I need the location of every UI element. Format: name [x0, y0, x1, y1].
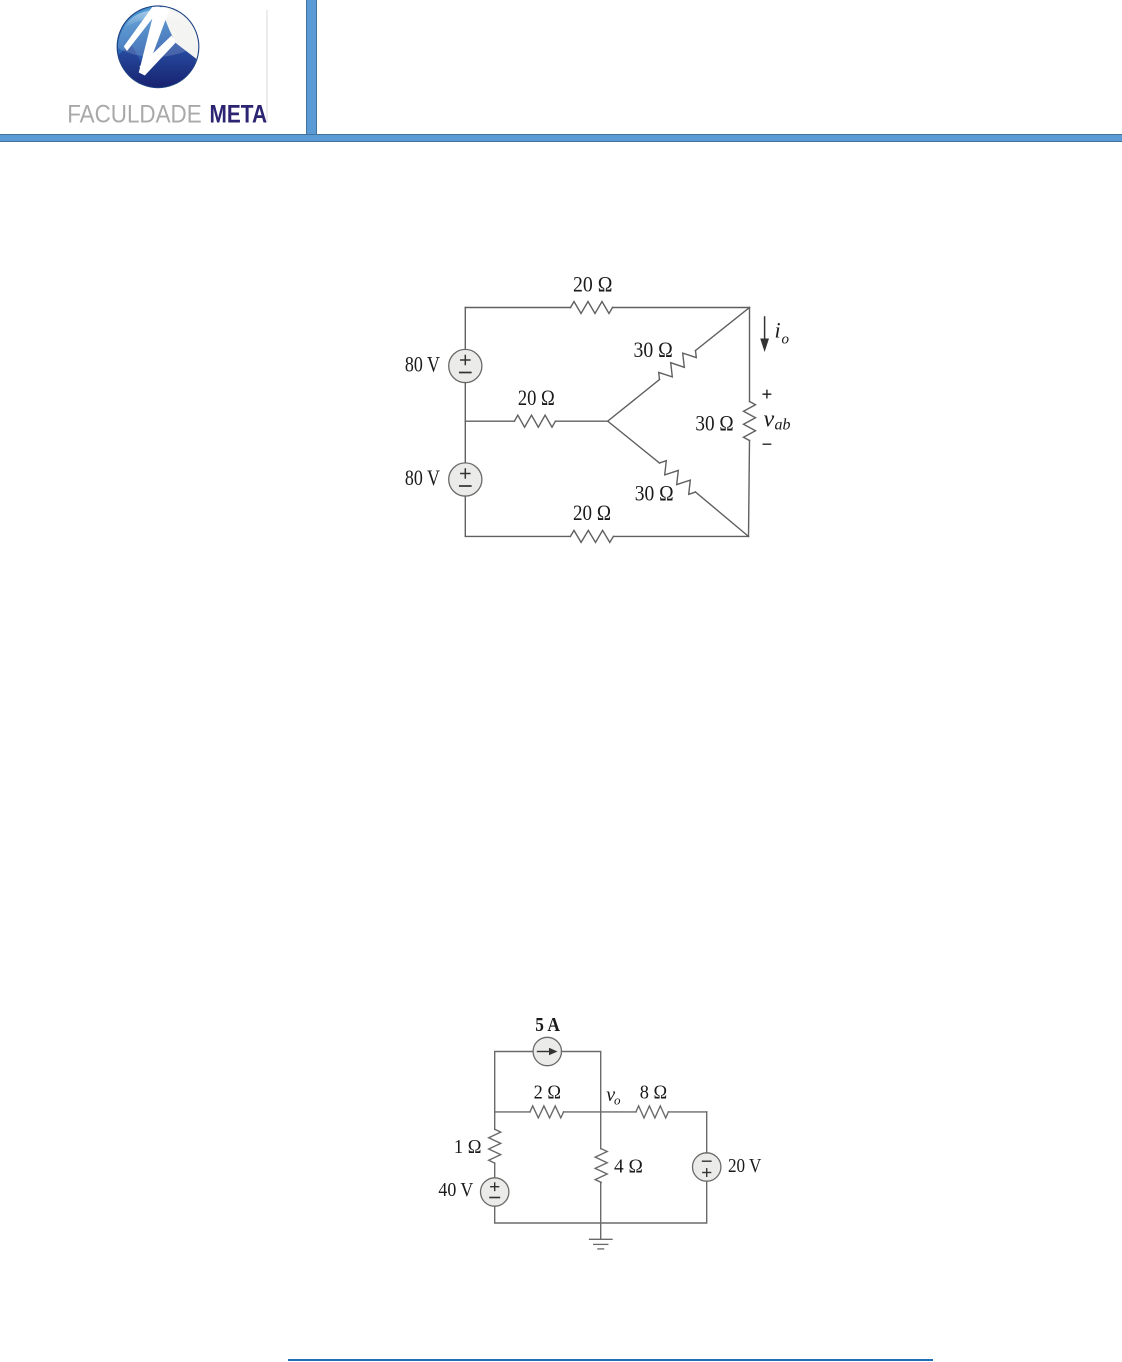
- white M stroke 3: [140, 36, 177, 76]
- resistor R bottom 20ohm: [570, 530, 613, 542]
- wire left vertical upper: [494, 1112, 496, 1129]
- wire diagonal lower upper part: [608, 421, 660, 463]
- resistor R 1ohm: [489, 1129, 501, 1163]
- svg-text:−: −: [762, 435, 773, 456]
- resistor R 2ohm: [530, 1106, 564, 1118]
- svg-text:v: v: [764, 406, 775, 432]
- wire mid left node to resistor: [495, 1111, 530, 1113]
- svg-text:80 V: 80 V: [405, 465, 440, 490]
- svg-text:FACULDADE: FACULDADE: [67, 101, 202, 129]
- white right region: [161, 3, 201, 63]
- svg-text:30 Ω: 30 Ω: [695, 410, 733, 435]
- navy bottom dome: [118, 41, 196, 88]
- ground stem: [600, 1223, 602, 1239]
- svg-text:80 V: 80 V: [405, 351, 440, 376]
- wire mid center segment: [564, 1111, 636, 1113]
- current source I1 5A: [533, 1037, 561, 1065]
- svg-text:ab: ab: [775, 417, 791, 434]
- wire bottom left segment: [465, 535, 570, 537]
- horizontal blue bar: [0, 134, 1122, 142]
- wire diagonal upper lower part: [608, 380, 660, 422]
- wire top loop right: [562, 1052, 601, 1112]
- wire mid right segment: [668, 1111, 706, 1113]
- wire mid vertical upper: [600, 1112, 602, 1149]
- wire right vertical upper: [706, 1112, 708, 1153]
- logo Faculdade Meta: [60, 0, 280, 130]
- resistor R top 20ohm: [571, 302, 613, 314]
- wire top left segment: [465, 307, 570, 309]
- svg-text:30 Ω: 30 Ω: [634, 337, 673, 362]
- white M stroke 2 valley: [139, 6, 170, 76]
- svg-text:+: +: [762, 385, 773, 406]
- voltage source V1 80V: [449, 349, 482, 382]
- svg-text:5 A: 5 A: [535, 1014, 560, 1036]
- svg-text:o: o: [782, 332, 790, 348]
- glass arc: [118, 9, 198, 57]
- wire mid vertical lower: [600, 1182, 602, 1223]
- resistor R right 30ohm vab: [744, 402, 756, 441]
- svg-text:o: o: [614, 1093, 621, 1108]
- circuit 2: [420, 1000, 780, 1260]
- wire top right segment: [613, 307, 750, 309]
- wire diagonal upper upper part: [696, 308, 750, 351]
- svg-text:20 Ω: 20 Ω: [518, 385, 555, 410]
- svg-text:40 V: 40 V: [438, 1179, 473, 1201]
- wire middle right segment: [555, 420, 607, 422]
- resistor R 8ohm: [636, 1106, 669, 1118]
- wire left vertical mid: [464, 383, 466, 463]
- resistor R mid 20ohm: [514, 415, 555, 427]
- wire bottom right segment: [613, 535, 748, 537]
- voltage source V 40V: [481, 1178, 509, 1206]
- ground symbol: [590, 1238, 613, 1240]
- svg-text:8 Ω: 8 Ω: [640, 1081, 667, 1103]
- wire diagonal lower lower part: [696, 492, 749, 536]
- white M stroke 1: [124, 6, 160, 51]
- wire right vertical upper: [749, 308, 751, 402]
- voltage source V 20V: [693, 1153, 721, 1181]
- logo ball: [117, 3, 202, 88]
- wire left vertical lower: [495, 1206, 601, 1223]
- vertical blue bar: [306, 0, 317, 134]
- resistor R 4ohm: [595, 1149, 607, 1183]
- voltage source V2 80V: [449, 463, 482, 496]
- wire left vertical upper: [464, 308, 466, 350]
- footer rule: [288, 1359, 933, 1361]
- svg-text:4 Ω: 4 Ω: [614, 1156, 643, 1178]
- gloss highlight: [123, 10, 193, 29]
- wire left vertical lower: [464, 496, 466, 536]
- svg-text:30 Ω: 30 Ω: [635, 481, 674, 506]
- wire middle left segment: [465, 420, 514, 422]
- divider hairline: [266, 10, 268, 122]
- resistor R diag top 30ohm: [659, 351, 697, 380]
- svg-text:META: META: [210, 101, 268, 129]
- circuit 1: [390, 260, 810, 560]
- wire left vertical mid: [494, 1163, 496, 1178]
- resistor R diag bottom 30ohm: [660, 461, 696, 495]
- current arrow io: [760, 317, 769, 352]
- svg-text:20 V: 20 V: [728, 1155, 762, 1177]
- svg-text:2 Ω: 2 Ω: [534, 1081, 561, 1103]
- wire bottom right segment: [601, 1181, 707, 1223]
- wire right vertical lower: [749, 441, 750, 537]
- svg-text:1 Ω: 1 Ω: [454, 1136, 482, 1158]
- wire top loop left: [495, 1052, 533, 1112]
- svg-text:20 Ω: 20 Ω: [573, 272, 612, 297]
- svg-text:i: i: [775, 318, 781, 343]
- svg-text:20 Ω: 20 Ω: [573, 500, 611, 525]
